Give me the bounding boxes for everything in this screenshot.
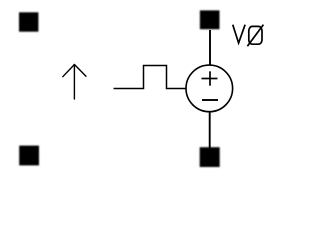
port square bottom-left <box>19 146 39 166</box>
pulse waveform <box>114 66 187 89</box>
wire top square to source <box>209 30 211 65</box>
wire source to bottom square <box>209 112 211 149</box>
plus sign <box>202 71 218 85</box>
minus sign <box>202 99 218 101</box>
label V0 <box>233 25 263 45</box>
port square top-right <box>200 10 220 29</box>
voltage source V0 circle <box>186 65 233 112</box>
port square top-left <box>19 12 38 31</box>
arrow (up) <box>63 65 86 100</box>
port square bottom-right <box>200 147 220 167</box>
